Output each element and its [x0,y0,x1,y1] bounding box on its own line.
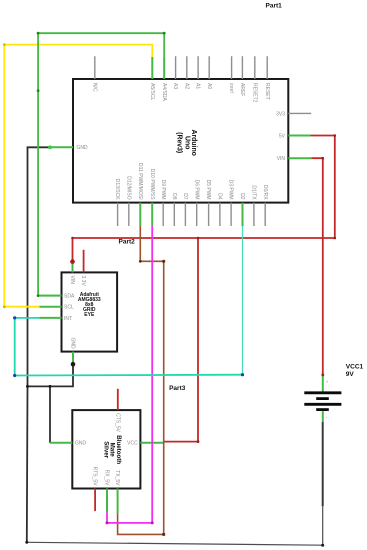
pin D4 (bottom) [219,203,221,226]
svg-text:D4: D4 [217,193,223,200]
wire GND net: bottom long thin run to battery minus (black) [27,506,323,545]
svg-text:D3 PWM: D3 PWM [228,180,234,200]
svg-text:A0: A0 [206,83,212,89]
wire GND net: battery minus lead vertical (black) [322,422,324,506]
junction dot dark green SDA upper-left corner [37,32,40,35]
IC Part2 Adafruit AMG8833 body [62,272,118,351]
pin RESET (top) [266,56,268,79]
svg-text:D9 PWM: D9 PWM [160,180,166,200]
pin A4/SDA (top, green leg) [163,57,165,79]
svg-text:D6 PWM: D6 PWM [193,180,199,200]
svg-text:N/C: N/C [91,83,97,92]
pin D13/SCK (bottom) [117,203,119,226]
junction dot dark magenta at magenta bottom corner [151,521,154,524]
pin INT (Part2 left, green leg) [40,317,62,319]
pin SDA (Part2 left, green leg) [40,295,62,297]
svg-text:D5 PWM: D5 PWM [205,180,211,200]
svg-text:3.3V: 3.3V [80,276,86,287]
svg-text:D11 PWM/MOSI: D11 PWM/MOSI [137,163,143,200]
pin D10 PWM/SS (bottom, green leg) [151,203,153,226]
junction dot dark red at 5V lower-right corner [334,237,337,240]
svg-text:D7: D7 [182,193,188,200]
svg-text:3V3: 3V3 [276,111,285,117]
battery plate long lower [304,403,341,406]
svg-text:GND: GND [77,145,89,151]
svg-text:A5/SCL: A5/SCL [149,83,155,100]
pin 5V (right, green leg) [288,135,310,137]
wire GND net: left vertical lower run (black) [26,386,29,542]
svg-text:D8: D8 [171,193,177,200]
svg-text:D10 PWM/SS: D10 PWM/SS [149,169,155,201]
junction dot red at Part2 VIN [70,259,75,264]
pin 3.3V (Part2 top, red stub wire) [83,250,85,273]
junction dot dark red at 5V-Part2 corner [71,237,74,240]
junction dot black at GND branch tee [26,385,29,388]
svg-text:5V: 5V [279,133,286,139]
svg-text:D0/RX: D0/RX [262,185,268,200]
wire RX net: Arduino D10 to Part3 RX_5V (magenta) [107,226,152,523]
pin GND (Part3 left, green leg) [50,442,72,444]
battery plate long top [304,391,341,394]
junction dot yellow bottom corner [3,305,6,308]
svg-text:RTS_5V: RTS_5V [92,467,98,486]
svg-text:D1/TX: D1/TX [251,185,257,200]
junction dot dark red at Part3 VCC corner [197,440,200,443]
junction dot black bottom-left corner [25,541,28,544]
pin A3 (top) [175,56,177,79]
pin SCL (Part2 left, green leg) [40,306,62,308]
pin A1 (top) [197,56,199,79]
pin D11 PWM/MOSI (bottom, green leg) [139,203,141,226]
wire TX net: Arduino D11 to Part3 TX_5V (brown) [118,226,164,534]
junction dot dark green SDA top corner [163,32,166,35]
svg-text:RESET: RESET [264,83,270,100]
svg-text:A1: A1 [195,83,201,89]
wire VIN net: Arduino VIN to battery plus (red) [311,158,322,375]
junction dot dark green SDA bottom corner [37,294,40,297]
pin RX_5V (Part3 bottom, green leg) [106,489,108,513]
junction dot black at Part2 GND [71,362,76,367]
pin CTS_5V (Part3 top, red stub wire) [117,389,119,410]
pin VCC (Part3 right, green leg) [140,442,164,444]
svg-text:A3: A3 [172,83,178,89]
wire SCL net: A5/SCL to Part2 SCL (yellow) [4,45,152,307]
battery plate short bottom [316,408,329,411]
junction dot dark red at 5V branch tee [197,237,200,240]
pin D3 PWM (bottom) [230,203,232,226]
junction dot dark red at VIN corner [322,157,325,160]
junction dot green at Arduino GND leg [48,145,52,149]
svg-text:VIN: VIN [277,156,286,162]
pin N/C (top) [94,56,96,79]
junction dot dark magenta at RX corner [106,521,109,524]
junction dot navy at cyan-D2 corner [241,373,244,376]
svg-text:A4/SDA: A4/SDA [161,83,167,101]
svg-text:D12/MISO: D12/MISO [125,176,131,199]
battery VCC1 9V plus leg (green) [322,375,324,392]
battery minus leg (green) [322,411,324,422]
svg-text:+: + [326,380,329,385]
pin D2 (bottom, green leg) [242,203,244,226]
svg-text:TX_5V: TX_5V [114,470,120,486]
wire GND branch to Part3 GND (black) [49,386,51,442]
svg-text:AREF: AREF [239,83,245,96]
svg-text:VIN: VIN [69,276,75,285]
junction dot navy at cyan lower-left corner [13,374,16,377]
svg-text:Part2: Part2 [119,239,136,246]
junction dot navy at INT corner [13,316,16,319]
pin D5 PWM (bottom) [208,203,210,226]
junction dot black bottom-right corner [321,544,324,547]
wire 5V branch to Part3 VCC (red) [164,238,198,442]
svg-text:SDA: SDA [64,294,75,300]
IC Part1 Arduino Uno (Rev3) body [73,79,288,203]
wire GND branch to Part2 GND (black) [28,364,74,386]
pin AREF (top) [241,56,243,79]
pin ioref (top) [231,56,233,79]
svg-text:RX_5V: RX_5V [104,470,110,487]
wire INT net: Part2 INT run to lower-left and across (cyan) [15,318,243,376]
battery plate short upper [316,397,329,400]
svg-text:Part3: Part3 [169,385,186,392]
junction dot dark red at 5V corner right [334,134,337,137]
pin VIN (right, green leg) [288,157,311,159]
pin VIN (Part2 top, green leg) [72,262,74,273]
svg-text:Part1: Part1 [266,3,283,10]
junction dot dark brown at brown bottom corner [162,533,165,536]
svg-text:GND: GND [70,337,76,349]
svg-text:RESET2: RESET2 [251,83,257,103]
pin D9 PWM (bottom) [162,203,164,226]
pin D1/TX (bottom) [253,203,255,226]
wire GND net: Arduino GND left to down-left corner (black) [28,147,51,386]
svg-text:VCC: VCC [127,441,138,447]
junction dot dark green on SDA vertical [37,89,40,92]
junction dot dark brown at brown upper jog [162,260,165,263]
pin TX_5V (Part3 bottom, green leg) [117,489,119,514]
pin A2 (top) [186,56,188,79]
svg-text:9V: 9V [346,371,355,378]
junction dot black at Part3 GND branch tee [49,385,52,388]
pin GND (Part2 bottom, green leg) [72,352,74,365]
pin D0/RX (bottom) [264,203,266,226]
svg-text:A2: A2 [183,83,189,89]
pin D7 (bottom) [184,203,186,226]
pin RTS_5V (Part3 bottom, red stub wire) [94,489,96,512]
svg-text:D13/SCK: D13/SCK [114,179,120,201]
pin D8 (bottom) [173,203,175,226]
svg-text:INT: INT [64,316,72,322]
junction dot dark brown at D11 corner [139,260,142,263]
pin D12/MISO (bottom) [128,203,130,226]
IC Part3 Bluetooth Mate Silver body [72,410,140,488]
svg-text:ioref: ioref [228,83,234,93]
pin RESET2 (top) [254,56,256,79]
pin GND (left, green leg) [50,146,73,148]
junction dot dark red at battery plus [321,374,324,377]
wire 5V net: Arduino 5V to Part2 VIN (red) [73,136,335,262]
pin D6 PWM (bottom) [196,203,198,226]
junction dot yellow top corner [3,43,6,46]
svg-text:D2: D2 [239,193,245,200]
svg-text:GND: GND [75,441,87,447]
pin 3V3 (right, gray not connected wire) [288,112,311,114]
svg-text:CTS_5V: CTS_5V [114,413,120,433]
pin A5/SCL (top, green leg) [151,57,153,79]
wire SDA net: A4/SDA to Part2 SDA (green) [38,33,164,295]
svg-text:VCC1: VCC1 [346,364,364,371]
svg-text:SCL: SCL [64,305,74,311]
pin A0 (top) [208,56,210,79]
wire INT net: vertical rise to Arduino D2 (cyan) [242,226,244,375]
